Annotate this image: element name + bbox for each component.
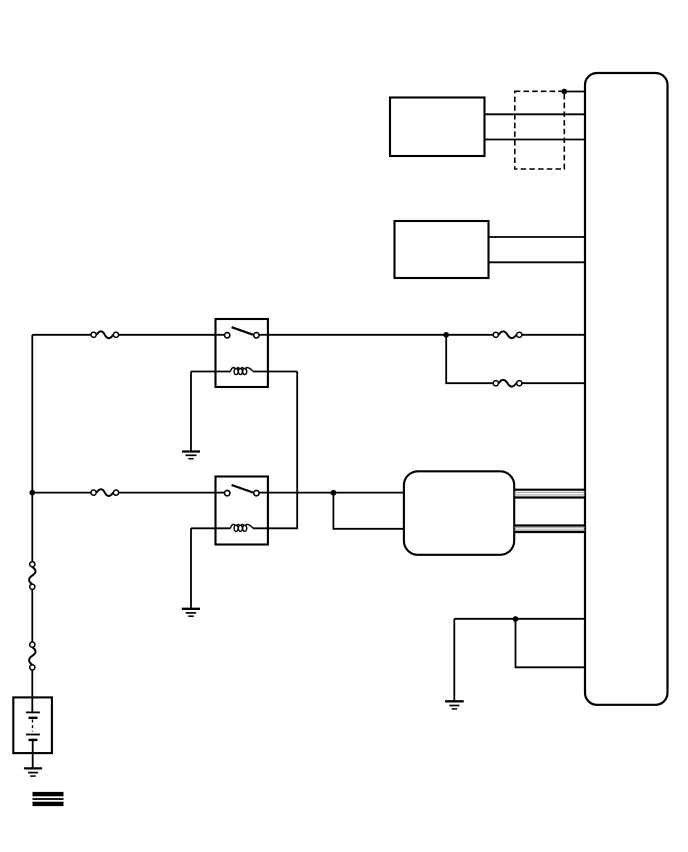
wire F4 to relay K2 (119, 492, 216, 494)
wire K2 switch out to module A1 (268, 492, 404, 494)
wire top rail left segment (32, 334, 91, 336)
wire M2 pin1 to U1 (489, 236, 586, 238)
fusible link FL1 (29, 562, 35, 590)
wire between fusible links (31, 589, 33, 642)
chassis ground bars (33, 792, 64, 806)
wire K2 coil left to ground (190, 528, 192, 608)
node mid rail junction (29, 490, 35, 496)
wire M1 pin2 to U1 (485, 139, 586, 141)
connector (dashed box) X1 (515, 91, 565, 169)
module A1 (rounded box) (404, 471, 514, 555)
relay K2 switch (216, 485, 269, 496)
wire down to ground G4 (453, 619, 455, 701)
wire node to U1 top (564, 91, 585, 93)
wire U1 ground rail (454, 618, 585, 620)
relay K1 coil (191, 368, 297, 375)
wire M2 pin2 to U1 (489, 261, 586, 263)
fusible link FL2 (29, 642, 35, 670)
wire node down to A1 second pin (333, 493, 404, 529)
wire left battery rail upper (31, 335, 33, 562)
fuse F2 (493, 331, 522, 338)
wire M1 pin1 to U1 (485, 113, 586, 115)
wire node down to fuse F3 (446, 335, 493, 383)
wire F1 to relay K1 (119, 334, 216, 336)
wire F3 to U1 (522, 382, 585, 384)
relay K1 switch (216, 327, 269, 338)
component box M1 (top left) (390, 98, 485, 157)
wire F2 to U1 (522, 334, 585, 336)
node A1 branch (331, 490, 337, 496)
ground G4 (445, 701, 464, 709)
fuse F1 (91, 331, 119, 338)
battery BAT box (13, 697, 52, 753)
ECU main connector box U1 (585, 73, 668, 705)
ground G3 (battery) (24, 768, 42, 776)
node at X1 top-right (561, 89, 567, 95)
wire K1 coil left to ground (190, 372, 192, 452)
wire FL2 to battery (31, 670, 33, 712)
shielded cable A1 to U1 (upper) (514, 490, 585, 498)
node split to two fuses (443, 332, 449, 338)
battery cells (26, 712, 40, 740)
shielded cable A1 to U1 (lower) (514, 526, 585, 533)
relay K2 coil (191, 524, 253, 531)
ground G1 (182, 452, 200, 459)
wire node to fuse F2 (446, 334, 493, 336)
node ground rail branch (513, 616, 519, 622)
fuse F3 (493, 380, 522, 387)
ground G2 (182, 609, 200, 616)
relay K2 box (216, 477, 268, 545)
relay K1 box (216, 319, 268, 387)
wire battery negative to ground (32, 740, 34, 768)
wire branch down to U1 lower pin (516, 619, 586, 668)
wire K1 switch out to node (268, 334, 446, 336)
component box M2 (second left) (395, 221, 489, 278)
wire mid rail left segment (32, 492, 91, 494)
fuse F4 (91, 489, 119, 496)
wire K1 coil right down to K2 coil (253, 372, 297, 529)
